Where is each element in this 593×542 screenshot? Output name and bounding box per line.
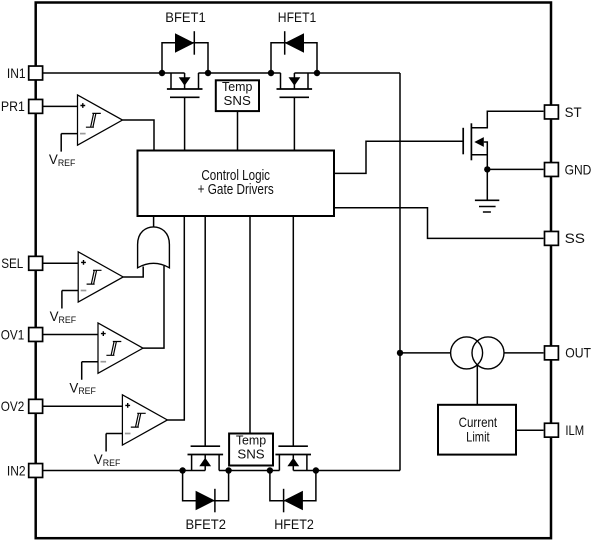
svg-text:PR1: PR1 — [1, 98, 25, 114]
svg-text:BFET2: BFET2 — [186, 516, 227, 532]
svg-text:BFET1: BFET1 — [165, 9, 206, 25]
svg-text:Current: Current — [459, 414, 498, 430]
svg-text:Limit: Limit — [466, 429, 490, 445]
svg-text:SEL: SEL — [1, 255, 23, 271]
svg-text:Temp: Temp — [236, 433, 266, 447]
svg-text:SNS: SNS — [224, 94, 251, 108]
svg-text:SNS: SNS — [237, 447, 264, 461]
svg-text:HFET2: HFET2 — [274, 516, 314, 532]
svg-text:GND: GND — [565, 161, 592, 177]
svg-text:SS: SS — [565, 230, 585, 246]
svg-text:IN1: IN1 — [7, 65, 26, 81]
svg-text:OV1: OV1 — [1, 326, 25, 342]
svg-text:IN2: IN2 — [7, 462, 26, 478]
svg-text:ILM: ILM — [565, 422, 584, 438]
svg-text:ST: ST — [565, 104, 582, 120]
svg-text:Temp: Temp — [222, 80, 252, 94]
svg-text:OUT: OUT — [565, 345, 591, 361]
svg-text:HFET1: HFET1 — [278, 9, 317, 25]
svg-text:+ Gate Drivers: + Gate Drivers — [198, 182, 274, 198]
svg-text:OV2: OV2 — [1, 398, 25, 414]
